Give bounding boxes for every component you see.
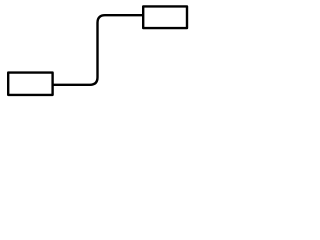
block (left component box): [8, 73, 52, 95]
wire: [53, 15, 144, 85]
block (top-right component box): [143, 6, 187, 28]
